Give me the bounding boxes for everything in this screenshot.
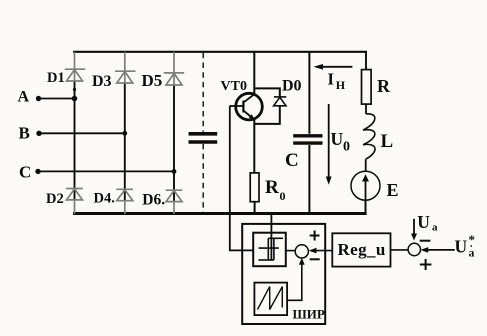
node B junction [122,131,127,136]
diode D3 [115,52,136,83]
dashed equivalent-source line [202,53,204,212]
svg-text:L: L [381,131,394,152]
svg-text:a: a [469,247,475,259]
svg-text:U: U [331,129,344,149]
diode D2 [66,189,83,215]
svg-text:D1: D1 [47,70,65,86]
load current arrow I_H (Iн) [317,66,352,68]
wire phase C [38,170,174,172]
resistor R0 [250,173,259,202]
svg-text:A: A [18,89,30,106]
svg-text:U: U [417,212,430,232]
top DC rail [73,51,367,53]
wire bridge leg 3 [173,84,175,201]
wire Reg_u to summer S2 [391,249,409,251]
diode D5 [164,52,184,85]
wire sawtooth to summer [287,264,302,301]
regulator Reg_u [332,233,390,266]
summing junction S1 [295,245,308,258]
wire D0 loop [254,88,279,97]
hysteresis comparator [253,233,286,267]
wire Reg_u to summer S1 [315,250,332,252]
svg-text:a: a [432,221,438,233]
resistor R [365,52,367,70]
diode D6 [166,190,183,214]
wire L to E [365,159,367,171]
svg-text:C: C [19,162,31,181]
svg-text:0: 0 [343,140,350,155]
signal Ua* [427,249,455,251]
base drive wire [230,106,253,251]
wire bridge leg 1 [74,80,76,201]
transistor VT0 [236,93,263,120]
svg-text:D4.: D4. [94,190,115,206]
diode D1 [65,52,85,81]
PWM block outer box [242,224,325,324]
EMF source E [351,171,380,200]
svg-text:U: U [455,236,468,256]
wire E to bottom rail [365,200,367,213]
collector wire [253,52,255,95]
emitter wire [253,119,255,173]
wire R to L [365,104,367,114]
svg-text:D6.: D6. [142,191,165,208]
svg-text:D0: D0 [282,78,302,95]
svg-text:0: 0 [280,189,286,203]
wire comparator to summer [286,250,295,252]
filter capacitor (on dashed line) [189,134,218,142]
svg-text:C: C [285,150,299,171]
svg-text:R: R [377,76,391,96]
wire bridge leg 2 [124,82,126,201]
svg-text:*: * [469,232,476,247]
summing junction S2 [408,243,420,255]
svg-text:I: I [328,70,334,89]
svg-text:Н: Н [336,78,346,92]
svg-text:D5: D5 [142,71,163,90]
svg-text:Reg_u: Reg_u [338,240,386,259]
svg-text:E: E [387,180,399,200]
diode D4 [116,189,133,214]
node A junction [72,96,78,102]
bottom DC rail [73,212,367,215]
inductor L [363,114,375,159]
wire R0 to bottom rail [254,202,256,214]
feedback wire from bottom rail [270,215,272,260]
diode D0 [274,97,287,106]
capacitor C [308,52,310,134]
svg-text:B: B [19,124,30,143]
svg-text:R: R [265,177,279,198]
wire phase A [39,98,75,100]
output voltage arrow U0 [328,104,330,178]
svg-text:VT0: VT0 [221,79,247,94]
svg-text:D2: D2 [46,191,64,207]
svg-text:ШИР: ШИР [293,307,325,322]
sawtooth generator [254,283,287,316]
node C junction [172,169,177,174]
svg-text:D3: D3 [92,73,112,90]
signal Ua [413,219,415,235]
wire phase B [39,132,125,134]
